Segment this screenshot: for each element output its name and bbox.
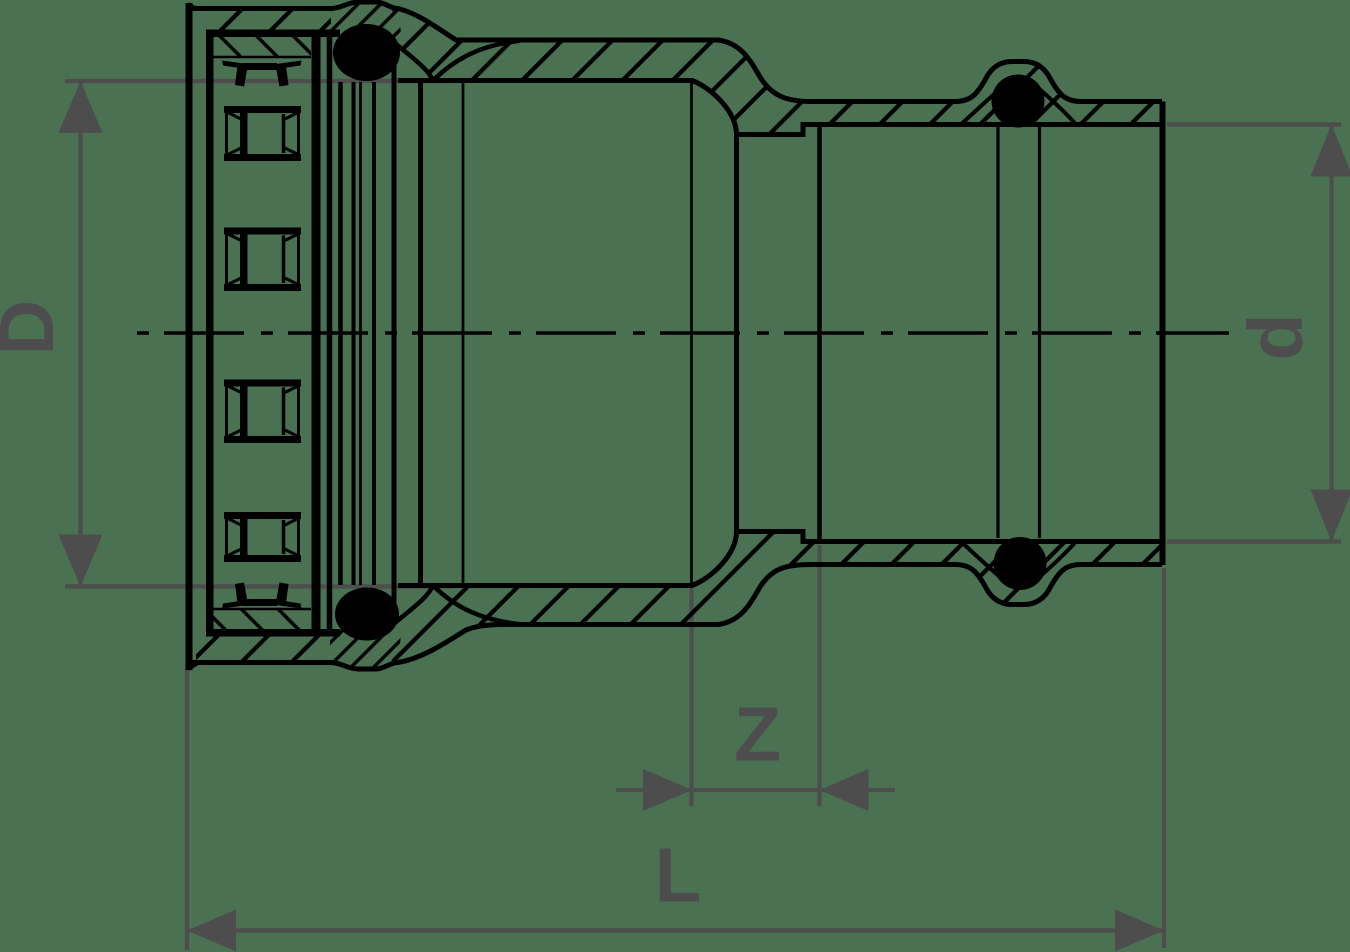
svg-text:d: d	[1233, 313, 1319, 360]
svg-text:L: L	[654, 833, 701, 919]
svg-text:D: D	[0, 300, 70, 356]
svg-text:Z: Z	[734, 692, 781, 778]
